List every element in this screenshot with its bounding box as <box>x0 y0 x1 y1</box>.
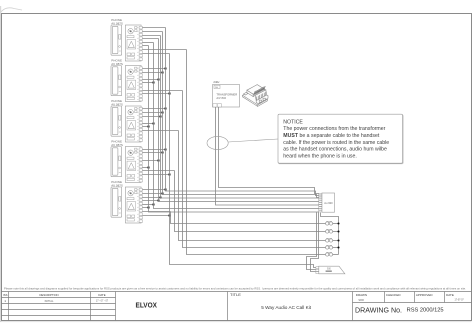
page corner curl mark <box>1 8 22 12</box>
phone 2 wire to terminal 2 <box>142 72 162 74</box>
junction phone 4 terminal 6 <box>148 167 150 169</box>
svg-text:heard when the phone is in use: heard when the phone is in use. <box>283 153 357 159</box>
svg-text:Please note this all drawings: Please note this all drawings and diagra… <box>4 286 466 290</box>
svg-text:1: 1 <box>4 299 6 303</box>
phone 2 connection block <box>125 66 141 102</box>
junction phone 5 terminal 2 <box>162 193 164 195</box>
phone 1 wire to terminal 3 <box>142 35 160 37</box>
phone 3 terminal strip <box>137 107 142 141</box>
svg-text:5 Way Audio AC Call Kit: 5 Way Audio AC Call Kit <box>261 305 312 310</box>
phone 4 wire to terminal 6 <box>142 167 148 169</box>
call wire phone 1 to push button 5 <box>187 50 326 255</box>
title block text <box>3 286 466 314</box>
phone 3 wire to terminal 5 <box>142 123 153 125</box>
phone 1 connection block <box>125 25 141 61</box>
junction push button 2 <box>337 230 339 232</box>
push button 5 <box>326 252 339 256</box>
bus0 riser wire to amplifier <box>149 46 319 213</box>
speaker panel terminals <box>316 267 319 274</box>
speaker panel wire 2 <box>311 212 319 271</box>
notice box <box>278 114 403 164</box>
svg-text:TITLE: TITLE <box>230 292 241 297</box>
svg-text:ELVOX: ELVOX <box>136 301 158 310</box>
svg-text:240v: 240v <box>213 80 220 84</box>
phone 5 wire to terminal 5 <box>142 204 153 206</box>
phone 3 wire to terminal 6 <box>142 126 148 128</box>
phone 5 wire to terminal 2 <box>142 193 162 195</box>
junction phone 5 terminal 3 <box>160 197 162 199</box>
phone 4 terminal strip <box>137 148 142 182</box>
bottom page shadow <box>0 321 472 322</box>
phone 5 handset body <box>111 187 122 217</box>
phone 3 handset body <box>111 106 122 136</box>
transformer supply wire 1 <box>216 107 319 205</box>
transformer isometric view <box>243 85 269 107</box>
svg-text:INITIAL: INITIAL <box>45 299 54 303</box>
phone 4 wire to terminal 8 <box>142 174 169 176</box>
phone 5 wire to terminal 1 <box>142 189 165 191</box>
svg-text:TRANSFORMER: TRANSFORMER <box>216 92 237 96</box>
svg-text:NOTICE: NOTICE <box>283 119 303 125</box>
call wire phone 2 to push button 4 <box>183 91 326 248</box>
svg-text:A/V 832: A/V 832 <box>216 96 226 100</box>
phone 2 wire to terminal 4 <box>142 79 158 81</box>
svg-text:APPROVED: APPROVED <box>416 293 434 297</box>
junction phone 2 terminal 8 <box>169 93 171 95</box>
phone 1 wire to terminal 6 <box>142 45 148 47</box>
phone 5 wire to terminal 4 <box>142 200 158 202</box>
svg-text:as the handset connections, au: as the handset connections, audio hum wi… <box>283 147 387 153</box>
junction phone 2 terminal 5 <box>153 82 155 84</box>
leader line to notice <box>228 139 278 142</box>
bus2 riser wire to amplifier <box>159 39 319 202</box>
svg-text:DRAWING No.: DRAWING No. <box>355 307 402 314</box>
phone 4 wire to terminal 4 <box>142 160 158 162</box>
push button 3 <box>326 238 339 242</box>
phone 1 wire to terminal 8 <box>142 53 169 55</box>
phone 1 handset body <box>111 25 122 55</box>
speaker wire riser to panel <box>170 54 316 268</box>
phone 4 wire to terminal 7 <box>142 170 174 172</box>
transformer supply wire 2 <box>219 107 319 194</box>
svg-text:DATE: DATE <box>98 293 105 297</box>
junction phone 2 terminal 4 <box>158 79 160 81</box>
junction phone 3 terminal 5 <box>153 123 155 125</box>
phone 2 wire to terminal 8 <box>142 93 169 95</box>
junction phone 3 terminal 2 <box>162 112 164 114</box>
junction phone 4 terminal 1 <box>165 149 167 151</box>
phone 3 connection block <box>125 106 141 142</box>
svg-text:AV 087S: AV 087S <box>111 21 123 25</box>
call wire phone 3 to push button 3 <box>179 131 326 241</box>
svg-text:DATE: DATE <box>446 293 454 297</box>
junction phone 2 terminal 1 <box>165 68 167 70</box>
phone 5 terminal strip <box>137 188 142 222</box>
push button 2 <box>326 229 339 233</box>
phone 2 label <box>111 59 123 66</box>
amplifier unit box <box>322 193 335 212</box>
phone 1 terminal strip <box>137 26 142 60</box>
phone 1 wire to terminal 2 <box>142 31 162 33</box>
amplifier terminal strip <box>319 193 322 212</box>
phone 3 label <box>111 99 123 106</box>
speaker panel wire 1 <box>307 212 317 269</box>
transformer output terminals <box>213 104 222 107</box>
phone 2 wire to terminal 5 <box>142 82 153 84</box>
phone 3 wire to terminal 3 <box>142 116 160 118</box>
junction push button 3 <box>337 239 339 241</box>
svg-text:The power connections from the: The power connections from the transform… <box>283 126 385 132</box>
svg-text:CHECKED: CHECKED <box>386 293 402 297</box>
call wire phone 4 to push button 2 <box>175 171 326 232</box>
junction phone 5 terminal 8 <box>169 215 171 217</box>
phone 5 wire to terminal 3 <box>142 197 160 199</box>
svg-text:17-07-07: 17-07-07 <box>455 300 465 302</box>
phone 1 wire to terminal 7 <box>142 49 186 51</box>
phone 4 wire to terminal 1 <box>142 149 165 151</box>
phone 4 connection block <box>125 147 141 183</box>
page left edge shading <box>0 6 1 322</box>
svg-text:Au 930: Au 930 <box>324 201 333 205</box>
phone 3 wire to terminal 1 <box>142 108 165 110</box>
junction push button 1 <box>337 222 339 224</box>
junction push button 4 <box>337 246 339 248</box>
transformer T1 box <box>213 85 240 108</box>
push button 1 <box>326 221 339 225</box>
junction phone 2 terminal 2 <box>162 72 164 74</box>
bus5 riser wire to amplifier <box>166 28 319 196</box>
call wire phone 5 to push button 1 <box>171 212 326 224</box>
junction phone 4 terminal 8 <box>169 174 171 176</box>
svg-text:MUST be a separate cable to th: MUST be a separate cable to the handset <box>283 133 380 139</box>
phone 4 handset body <box>111 147 122 177</box>
junction phone 3 terminal 1 <box>165 108 167 110</box>
junction phone 5 terminal 6 <box>148 207 150 209</box>
title block <box>2 292 472 321</box>
push button bus wire from amplifier <box>321 213 339 255</box>
phone 1 wire to terminal 5 <box>142 42 153 44</box>
junction phone 5 terminal 1 <box>165 189 167 191</box>
svg-text:RSS 2000/125: RSS 2000/125 <box>407 308 444 314</box>
svg-text:ISS: ISS <box>3 293 8 297</box>
junction phone 3 terminal 3 <box>160 116 162 118</box>
phone 1 wire to terminal 1 <box>142 27 165 29</box>
phone 1 wire to terminal 4 <box>142 38 158 40</box>
svg-text:DESCRIPTION: DESCRIPTION <box>39 293 58 297</box>
speaker panel unit <box>319 266 345 274</box>
phone 2 wire to terminal 7 <box>142 90 182 92</box>
junction phone 3 terminal 6 <box>148 126 150 128</box>
phone 1 label <box>111 18 123 25</box>
bus4 riser wire to amplifier <box>163 32 319 198</box>
svg-text:17 - 07 - 07: 17 - 07 - 07 <box>96 300 109 303</box>
phone 3 wire to terminal 7 <box>142 130 178 132</box>
phone 4 wire to terminal 2 <box>142 152 162 154</box>
junction phone 5 terminal 4 <box>158 200 160 202</box>
phone 5 label <box>111 180 123 187</box>
junction phone 4 terminal 4 <box>158 160 160 162</box>
phone 2 terminal strip <box>137 67 142 101</box>
phone 4 label <box>111 140 123 147</box>
cable callout ellipse <box>207 136 228 149</box>
phone 5 connection block <box>125 187 141 223</box>
push button 4 <box>326 245 339 249</box>
bus3 riser wire to amplifier <box>161 36 319 199</box>
junction phone 5 terminal 5 <box>153 204 155 206</box>
phone 5 wire to terminal 8 <box>142 215 169 217</box>
junction phone 4 terminal 2 <box>162 152 164 154</box>
phone 2 handset body <box>111 66 122 96</box>
bus1 riser wire to amplifier <box>154 43 319 209</box>
svg-text:SRR: SRR <box>358 298 364 302</box>
svg-text:DRAWN: DRAWN <box>356 293 367 297</box>
phone 3 wire to terminal 2 <box>142 112 162 114</box>
svg-text:cable. If the power is routed: cable. If the power is routed in the sam… <box>283 140 389 146</box>
phone 2 wire to terminal 1 <box>142 68 165 70</box>
phone 5 wire to terminal 6 <box>142 207 148 209</box>
phone 5 wire to terminal 7 <box>142 211 170 213</box>
